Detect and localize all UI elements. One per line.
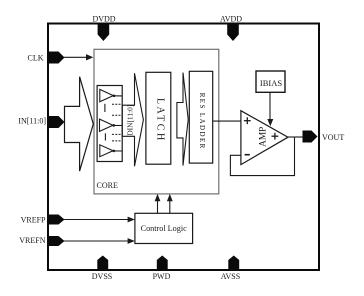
svg-text:VREFN: VREFN bbox=[19, 236, 45, 245]
svg-text:DVSS: DVSS bbox=[92, 272, 112, 281]
LATCH box bbox=[146, 72, 171, 164]
svg-text:AMP: AMP bbox=[259, 127, 269, 147]
bus arrow DIN[11:0] buffers to LATCH bbox=[122, 73, 143, 166]
wire VREFN into Control Logic bbox=[64, 238, 135, 244]
svg-text:LATCH: LATCH bbox=[155, 98, 166, 143]
wire VREFP into Control Logic bbox=[64, 217, 135, 223]
svg-text:Control Logic: Control Logic bbox=[141, 224, 188, 233]
ellipsis marks 2 bbox=[105, 133, 120, 141]
svg-text:RES LADDER: RES LADDER bbox=[198, 93, 206, 150]
pin DVDD bbox=[92, 15, 115, 42]
RES LADDER box bbox=[189, 71, 212, 163]
wire CLK arrow into CORE bbox=[64, 54, 93, 60]
bus arrow LATCH to RES LADDER bbox=[177, 73, 188, 166]
svg-text:VREFP: VREFP bbox=[21, 216, 46, 225]
buffer amp 1 bbox=[100, 89, 122, 101]
input bus block arrow from IN[11:0] bbox=[65, 77, 94, 171]
svg-text:AVDD: AVDD bbox=[220, 15, 242, 24]
pin IN[11:0] bbox=[18, 116, 64, 128]
wire IBIAS down arrow into AMP bbox=[267, 92, 273, 126]
pin DVSS bbox=[92, 256, 112, 281]
svg-text:DVDD: DVDD bbox=[92, 15, 115, 24]
wire Control Logic to CORE arrow 1 bbox=[155, 194, 161, 213]
buffer amp 2 bbox=[100, 119, 123, 131]
svg-text:PWD: PWD bbox=[153, 272, 171, 281]
svg-text:CLK: CLK bbox=[28, 54, 44, 63]
svg-text:CORE: CORE bbox=[97, 181, 118, 190]
svg-text:VOUT: VOUT bbox=[322, 133, 344, 142]
CORE box bbox=[94, 49, 219, 194]
pin VREFP bbox=[21, 215, 65, 225]
pin VREFN bbox=[19, 236, 64, 246]
pin VOUT bbox=[303, 131, 345, 143]
op-amp AMP bbox=[241, 111, 288, 165]
buffer array box bbox=[97, 86, 122, 162]
wire RES LADDER to AMP + input bbox=[213, 120, 241, 122]
pin AVSS bbox=[221, 256, 240, 281]
buffer amp 3 bbox=[100, 145, 122, 157]
svg-text:IN[11:0]: IN[11:0] bbox=[18, 117, 46, 126]
wire Control Logic to CORE arrow 2 bbox=[167, 194, 173, 213]
svg-text:IBIAS: IBIAS bbox=[260, 78, 282, 88]
svg-text:AVSS: AVSS bbox=[221, 272, 240, 281]
pin AVDD bbox=[220, 15, 242, 42]
wire feedback loop bbox=[230, 137, 294, 176]
svg-text:DIN[11:0]: DIN[11:0] bbox=[125, 105, 134, 136]
wire AMP output to VOUT bbox=[288, 136, 303, 138]
pin CLK bbox=[28, 52, 65, 64]
pin PWD bbox=[153, 256, 171, 281]
IBIAS box bbox=[256, 71, 285, 92]
chip boundary bbox=[48, 24, 319, 271]
Control Logic box bbox=[135, 213, 193, 243]
ellipsis marks 1 bbox=[105, 104, 121, 116]
